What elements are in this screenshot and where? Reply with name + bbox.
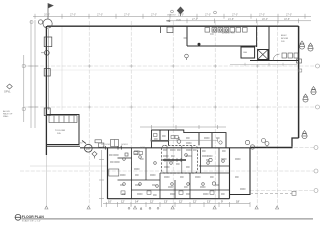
svg-text:OO: OO bbox=[186, 194, 190, 196]
shelving row bbox=[49, 116, 77, 123]
svg-text:27'-0": 27'-0" bbox=[97, 14, 103, 17]
svg-text:27'-4": 27'-4" bbox=[192, 18, 198, 21]
svg-text:OOO: OOO bbox=[186, 143, 192, 145]
svg-text:OO OOO: OO OOO bbox=[110, 162, 120, 164]
svg-text:13': 13' bbox=[164, 200, 168, 204]
svg-text:OO: OO bbox=[79, 143, 83, 145]
grid line horizontal 5 bbox=[20, 170, 314, 172]
svg-text:OO: OO bbox=[140, 159, 144, 161]
svg-text:OO: OO bbox=[184, 187, 188, 189]
svg-text:27'-0": 27'-0" bbox=[178, 14, 184, 17]
top dimension chain B bbox=[166, 19, 311, 24]
svg-text:OO: OO bbox=[215, 185, 219, 187]
svg-text:18'-8": 18'-8" bbox=[284, 18, 290, 21]
svg-text:20'-0": 20'-0" bbox=[262, 18, 268, 21]
svg-text:BREAK RM: BREAK RM bbox=[222, 32, 235, 35]
left note text bbox=[3, 110, 13, 118]
grid line horizontal 6 bbox=[250, 190, 314, 192]
keynote marker below wall bbox=[185, 54, 189, 60]
wall vertical at 269 bbox=[268, 26, 270, 61]
wall vertical at 256.6 bbox=[256, 26, 258, 47]
wing door fixture bbox=[125, 153, 128, 156]
svg-text:OOO: OOO bbox=[176, 19, 181, 21]
wall vertical at 187 bbox=[186, 26, 188, 46]
micro marks under chain bbox=[128, 207, 159, 209]
room outline bbox=[46, 115, 79, 145]
svg-text:OO: OO bbox=[216, 138, 220, 140]
fixture box right of wing wall bbox=[111, 140, 119, 147]
room label bbox=[55, 130, 65, 135]
svg-text:TOOL RM: TOOL RM bbox=[55, 130, 65, 132]
cluster mid dim marks bbox=[150, 138, 218, 142]
grid line vertical C bbox=[130, 21, 132, 206]
wall horizontal y46 bbox=[187, 45, 257, 47]
small room at 241 bbox=[241, 47, 255, 58]
cluster upper dim marks bbox=[140, 125, 226, 129]
corner grid bubble top-left bbox=[38, 4, 53, 29]
fixtures right of circle bbox=[95, 140, 104, 147]
svg-text:OO: OO bbox=[162, 136, 166, 138]
interior wall seg y158 bbox=[118, 157, 132, 159]
svg-text:OO: OO bbox=[210, 177, 214, 179]
big circle marker bbox=[82, 141, 92, 153]
left grid bubbles bbox=[22, 64, 26, 68]
svg-text:OOOOO: OOOOO bbox=[167, 14, 176, 16]
svg-text:13': 13' bbox=[207, 200, 211, 204]
office text block right bbox=[281, 35, 288, 43]
svg-text:OO: OO bbox=[176, 164, 180, 166]
svg-text:27'-0": 27'-0" bbox=[232, 14, 238, 17]
small circle near P bbox=[262, 139, 266, 143]
svg-text:OO OOO: OO OOO bbox=[109, 155, 119, 157]
keynote flag above top wall bbox=[177, 7, 183, 16]
svg-text:OOO: OOO bbox=[164, 177, 170, 179]
svg-text:GFVL: GFVL bbox=[4, 91, 11, 94]
small circles on chain bbox=[171, 10, 174, 13]
svg-text:OO: OO bbox=[180, 177, 184, 179]
faint interior line y70 bbox=[48, 69, 298, 71]
svg-text:OOO: OOO bbox=[164, 167, 170, 169]
circles near 250,145 bbox=[245, 140, 254, 149]
svg-text:12': 12' bbox=[193, 200, 197, 204]
F marker at wall base bbox=[297, 59, 302, 63]
svg-text:OOO: OOO bbox=[207, 156, 213, 158]
svg-text:OO: OO bbox=[202, 151, 206, 153]
slab edge line bbox=[61, 27, 63, 111]
left wall bbox=[45, 26, 47, 155]
grid line vertical E bbox=[214, 21, 216, 206]
GFVL keynote left bbox=[7, 84, 13, 89]
keynote circle 5 bbox=[302, 131, 307, 139]
svg-text:OOO: OOO bbox=[240, 189, 246, 191]
left dimension chains bbox=[24, 20, 38, 128]
restroom fixtures row bbox=[205, 28, 247, 33]
grid line horizontal 4 bbox=[240, 147, 314, 149]
P marker bbox=[265, 142, 269, 149]
keynote circle 4 bbox=[303, 94, 308, 102]
svg-text:JAN: JAN bbox=[243, 51, 248, 54]
svg-text:OOO: OOO bbox=[170, 150, 176, 152]
svg-text:OO: OO bbox=[222, 151, 226, 153]
svg-text:OO OOO: OO OOO bbox=[101, 144, 110, 146]
grid lines group bbox=[20, 21, 316, 206]
dashed canopy box bbox=[162, 145, 198, 173]
svg-text:OOO: OOO bbox=[235, 159, 241, 161]
counter band inside dashed box bbox=[163, 159, 187, 161]
svg-text:27'-0": 27'-0" bbox=[259, 14, 265, 17]
svg-text:OO: OO bbox=[186, 138, 190, 140]
title bubble bbox=[15, 214, 21, 220]
svg-text:OOO: OOO bbox=[200, 187, 206, 189]
cluster text specks bbox=[109, 150, 246, 197]
svg-text:OOO: OOO bbox=[163, 156, 169, 158]
svg-text:10': 10' bbox=[108, 200, 112, 204]
svg-text:27'-0": 27'-0" bbox=[70, 14, 76, 17]
left wall fixture circle bbox=[44, 50, 49, 55]
svg-text:OOO: OOO bbox=[137, 194, 143, 196]
top dimension chain A bbox=[33, 14, 311, 19]
dashed line end box bbox=[292, 191, 296, 195]
door jamb ticks on y147.8 wall bbox=[105, 146, 121, 150]
svg-text:OO: OO bbox=[163, 150, 167, 152]
grid line horizontal 2 bbox=[24, 65, 316, 67]
svg-text:OO: OO bbox=[186, 167, 190, 169]
cluster left dim line bbox=[99, 150, 104, 207]
keynote diamond below circle bbox=[92, 152, 97, 159]
long interior wall y147.7 bbox=[80, 147, 251, 149]
svg-text:OO: OO bbox=[177, 150, 181, 152]
leader lines above wall bbox=[102, 145, 122, 148]
svg-text:18': 18' bbox=[236, 200, 240, 204]
bottom dim chain of cluster bbox=[103, 202, 250, 207]
right wall upper bbox=[298, 26, 300, 138]
kitchen label bbox=[210, 32, 235, 37]
svg-text:27'-0": 27'-0" bbox=[151, 14, 157, 17]
svg-text:OO: OO bbox=[152, 185, 156, 187]
keynote texts above cluster bbox=[101, 144, 145, 149]
svg-text:OO: OO bbox=[171, 156, 175, 158]
keynote circle 1 bbox=[299, 41, 304, 49]
dimension texts top row bbox=[44, 14, 292, 22]
svg-text:OOO: OOO bbox=[203, 194, 209, 196]
svg-text:OOO: OOO bbox=[204, 138, 210, 140]
wing dim line left bbox=[30, 165, 108, 167]
svg-text:OO: OO bbox=[235, 177, 239, 179]
bottom-right wall bbox=[251, 147, 293, 149]
top wall bbox=[47, 25, 299, 27]
keynote circle 3 bbox=[311, 87, 316, 95]
svg-text:OOO: OOO bbox=[170, 194, 176, 196]
cluster interior walls bbox=[118, 148, 230, 199]
door dot bbox=[198, 43, 201, 46]
svg-text:OOO: OOO bbox=[120, 175, 126, 177]
svg-text:OOO: OOO bbox=[140, 147, 145, 149]
left wall pilaster 1 bbox=[44, 37, 52, 47]
left chain bubble top bbox=[30, 20, 33, 23]
svg-text:OO: OO bbox=[153, 195, 157, 197]
grid line vertical B bbox=[88, 21, 90, 206]
shaft walls bbox=[258, 50, 268, 60]
water heater box bbox=[109, 169, 119, 176]
shaft X brace bbox=[258, 50, 268, 60]
left wall pilaster 3 bbox=[44, 108, 50, 116]
svg-text:OOO: OOO bbox=[150, 175, 156, 177]
svg-text:27'-0": 27'-0" bbox=[205, 14, 211, 17]
svg-text:ELEC: ELEC bbox=[281, 35, 287, 37]
svg-text:OOO: OOO bbox=[168, 187, 174, 189]
grid line vertical D bbox=[172, 21, 174, 206]
jamb tick outside wall 187 bbox=[184, 37, 188, 39]
svg-text:27'-0": 27'-0" bbox=[124, 14, 130, 17]
svg-text:OO: OO bbox=[221, 194, 225, 196]
cluster main outline bbox=[108, 148, 251, 199]
room bottom double bbox=[46, 145, 80, 147]
small fixture boxes in rooms bbox=[121, 151, 214, 194]
grid line vertical F bbox=[256, 21, 258, 206]
svg-text:SCALE: 1/8" = 1'-0": SCALE: 1/8" = 1'-0" bbox=[22, 219, 41, 222]
upper band marker bbox=[177, 137, 181, 143]
wall horizontal y60.5 bbox=[250, 60, 299, 62]
svg-text:12': 12' bbox=[150, 200, 154, 204]
wall stub near fountain bbox=[160, 27, 162, 34]
svg-text:OOO: OOO bbox=[134, 169, 140, 171]
grid line horizontal 3 bbox=[24, 106, 316, 108]
drinking fountain box bbox=[167, 27, 173, 33]
svg-text:OOO: OOO bbox=[195, 177, 201, 179]
counter band ticks bbox=[165, 158, 181, 161]
upper band rooms bbox=[152, 130, 227, 148]
grid intersection ticks bbox=[88, 64, 259, 108]
svg-text:14': 14' bbox=[135, 200, 139, 204]
svg-text:20'-0": 20'-0" bbox=[44, 14, 50, 17]
bottom dim texts bbox=[108, 200, 240, 204]
title underline bbox=[22, 218, 314, 220]
dashed box internal walls bbox=[167, 146, 192, 173]
dim line under top-right block bbox=[230, 63, 297, 66]
svg-text:WALL: WALL bbox=[3, 115, 10, 118]
svg-text:12': 12' bbox=[179, 200, 183, 204]
grid bubbles right ends bbox=[314, 64, 320, 193]
svg-text:OO: OO bbox=[135, 175, 139, 177]
left wall pilaster 2 bbox=[44, 69, 50, 77]
svg-text:21'-8": 21'-8" bbox=[228, 18, 234, 21]
grid triangles bottom bbox=[45, 206, 279, 209]
cluster door circles bbox=[123, 154, 225, 188]
svg-text:ROOM: ROOM bbox=[281, 38, 288, 40]
dashed line bottom right bbox=[250, 192, 292, 194]
svg-text:OOOO: OOOO bbox=[121, 144, 128, 146]
door swing top-right bbox=[273, 54, 280, 61]
svg-text:OO: OO bbox=[193, 150, 197, 152]
right wall outward tick bbox=[299, 69, 302, 72]
svg-text:OO: OO bbox=[134, 154, 138, 156]
grid line vertical F2 bbox=[277, 21, 279, 206]
toilet fixtures right bbox=[282, 53, 298, 58]
svg-text:27'-0": 27'-0" bbox=[286, 14, 292, 17]
svg-text:OOO: OOO bbox=[186, 150, 192, 152]
svg-text:12': 12' bbox=[121, 200, 125, 204]
svg-text:OO: OO bbox=[210, 33, 214, 36]
upper band interior details bbox=[154, 134, 223, 145]
svg-text:102: 102 bbox=[86, 147, 91, 150]
wing left wall bbox=[107, 148, 109, 199]
right wall jog bbox=[292, 138, 299, 147]
keynote circle 2 bbox=[308, 43, 313, 51]
